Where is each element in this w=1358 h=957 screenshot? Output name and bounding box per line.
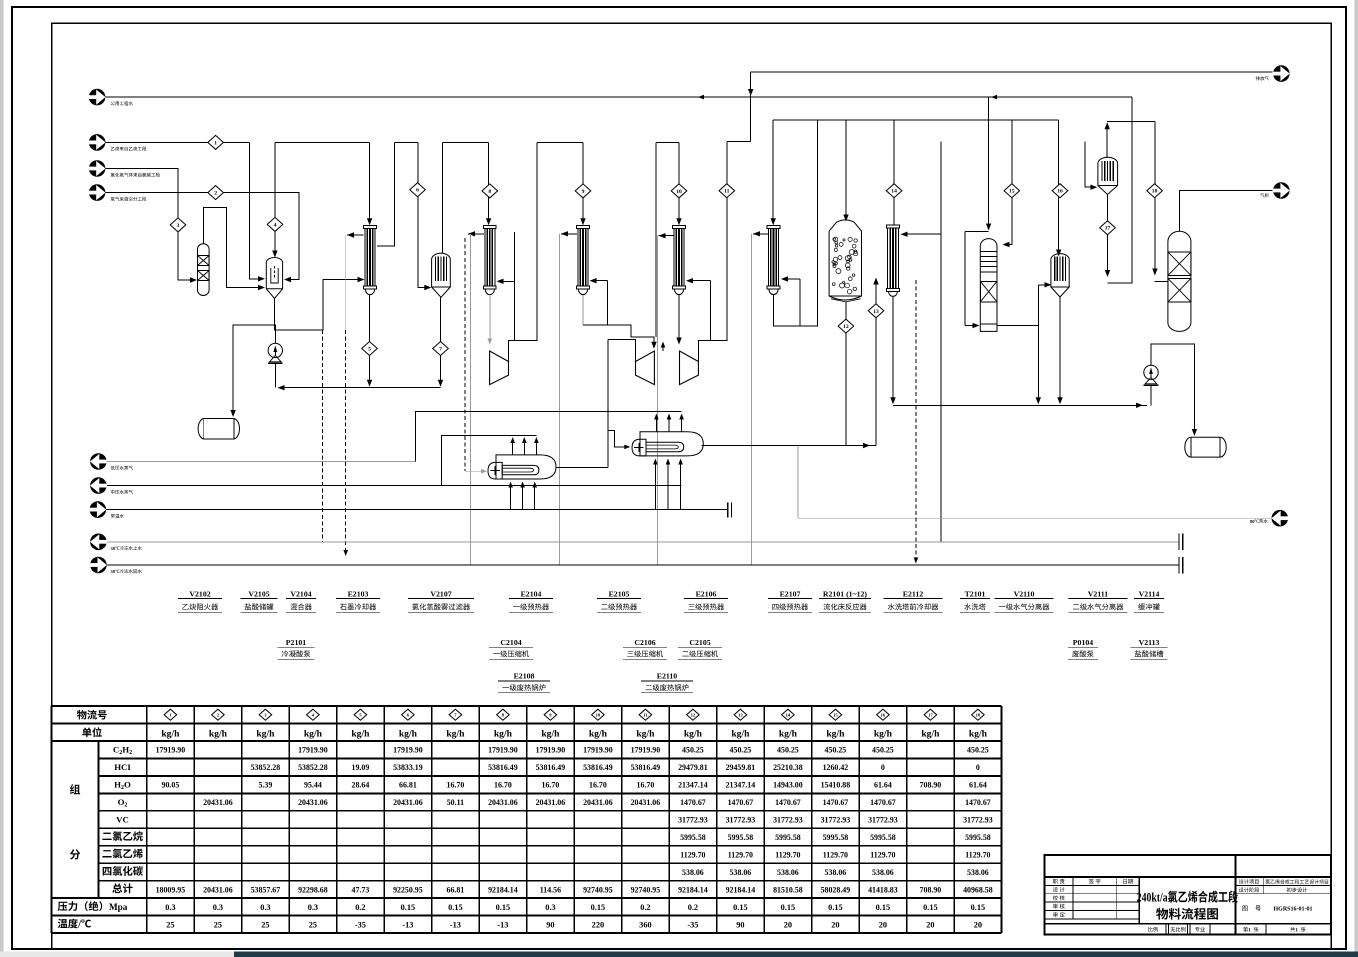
battery-limit flag 公用工程水 [89,89,133,106]
svg-text:90.05: 90.05 [162,781,180,790]
stream node 18 [1147,184,1163,198]
pipe: chilled water supply header [106,541,1179,543]
svg-text:114.56: 114.56 [540,885,561,894]
svg-text:92740.95: 92740.95 [631,885,661,894]
svg-text:V2104: V2104 [290,590,311,599]
svg-text:29459.81: 29459.81 [726,763,756,772]
first water separator V2110 [1051,254,1069,297]
svg-text:17: 17 [1105,226,1111,232]
stream node 1 [208,135,224,149]
svg-text:V2114: V2114 [1139,590,1160,599]
table component group labels [70,784,80,794]
svg-text:P2101: P2101 [286,638,306,647]
stream node 3 [170,218,186,232]
pipe: E2105 side inlet [593,280,607,282]
svg-text:0.2: 0.2 [688,903,698,912]
svg-text:450.25: 450.25 [682,746,704,755]
svg-text:H2O: H2O [114,780,131,792]
svg-text:/: / [77,919,81,930]
svg-text:kg/h: kg/h [209,729,228,740]
svg-text:VC: VC [116,815,129,825]
svg-text:53852.28: 53852.28 [298,763,328,772]
stream node 11 [719,184,735,198]
pipe: E2103 top riser [369,142,371,222]
svg-text:20: 20 [784,920,792,929]
svg-text:kg/h: kg/h [969,729,988,740]
svg-text:5.39: 5.39 [258,781,272,790]
svg-text:92740.95: 92740.95 [583,885,613,894]
svg-text:20431.06: 20431.06 [203,885,233,894]
HCl storage drum V2105 [198,419,239,440]
pipe: E2106 side inlet [690,280,711,282]
svg-text:15: 15 [833,712,838,717]
title block drawing title [1137,891,1238,920]
svg-text:16: 16 [1057,189,1063,195]
svg-text:20431.06: 20431.06 [536,798,566,807]
pipe: cooling return E2105 [561,233,577,235]
svg-text:538.06: 538.06 [872,868,894,877]
svg-text:5995.58: 5995.58 [823,833,849,842]
svg-text:538.06: 538.06 [730,868,752,877]
svg-text:18: 18 [1152,189,1158,195]
svg-text:kg/h: kg/h [731,729,750,740]
svg-text:41418.83: 41418.83 [868,885,898,894]
svg-text:0.2: 0.2 [640,903,650,912]
svg-text:5: 5 [368,347,371,353]
pipe: E2108 outlet to E2110 [556,467,608,469]
svg-text:V2102: V2102 [189,590,210,599]
svg-text:31772.93: 31772.93 [868,816,898,825]
pipe: cooling water header [106,509,728,511]
svg-text:61.64: 61.64 [874,781,892,790]
svg-text:7: 7 [439,347,442,353]
svg-text:450.25: 450.25 [777,746,799,755]
pipe: stream16 drop to V2110 [1058,120,1060,253]
svg-text:20431.06: 20431.06 [203,798,233,807]
svg-text:12: 12 [691,712,696,717]
stream node 4 [267,217,283,231]
svg-text:-35: -35 [687,920,698,929]
preheater No.4 E2107 [767,226,780,295]
svg-text:450.25: 450.25 [872,746,894,755]
waste heat boiler E2108 [488,455,556,479]
svg-text:20: 20 [831,920,839,929]
pipe: E2103 cooling outlet [347,234,364,236]
pipe: cooling return E2104 [468,233,484,235]
svg-text:30: 30 [111,569,116,574]
svg-text:0: 0 [881,763,885,772]
svg-text:E2112: E2112 [903,590,923,599]
preheater No.2 E2105 [577,226,590,295]
compressor stage2 C2105 [680,351,699,385]
svg-text:17919.90: 17919.90 [536,746,566,755]
svg-text:C2H2: C2H2 [113,745,132,757]
svg-text:708.90: 708.90 [920,781,942,790]
svg-text:31772.93: 31772.93 [821,816,851,825]
pipe: top header y119.8 [773,119,1058,121]
svg-text:360: 360 [639,920,651,929]
svg-text:17919.90: 17919.90 [488,746,518,755]
pipe: MP steam header [107,485,682,487]
svg-text:kg/h: kg/h [921,729,940,740]
table row O2 [118,797,991,809]
pipe: utility water header [105,96,1132,98]
svg-text:T2101: T2101 [965,590,986,599]
pipe: header to stream9 [537,141,583,143]
pipe: vent line to flare [751,71,1273,73]
svg-text:1: 1 [1295,927,1298,933]
pipe: corner to V2111 top [1107,120,1132,122]
svg-text:0.15: 0.15 [828,903,843,912]
svg-text:6: 6 [416,188,419,194]
svg-text:92184.14: 92184.14 [488,885,518,894]
svg-text:Mpa: Mpa [109,902,128,912]
pipe: reactor bottoms quench stream12 [845,302,847,446]
svg-text:kg/h: kg/h [446,729,465,740]
svg-text:90: 90 [546,920,554,929]
pipe: E2107 bottoms riser [774,120,818,326]
svg-text:1470.67: 1470.67 [823,798,849,807]
svg-text:0.15: 0.15 [733,903,748,912]
pipe: return riser right [1108,97,1133,283]
svg-text:25: 25 [166,920,174,929]
pipe: HCl gas feed line [105,169,193,281]
pipe: stream14 drop to E2112 [893,120,895,225]
pipe: T2101 bottoms [997,325,1038,327]
pipe: bridge to stream10 [656,141,679,143]
svg-text:C2105: C2105 [689,638,710,647]
svg-text:16.70: 16.70 [542,781,560,790]
svg-text:31772.93: 31772.93 [726,816,756,825]
compressor stage1 C2104 [490,351,509,385]
pipe: mixer outlet to E2103 [275,280,362,331]
pipe: quench loop with stream13 [702,445,876,447]
table row HCI [114,762,980,772]
battery-limit flag 气柜 [1260,182,1290,199]
svg-text:538.06: 538.06 [682,868,704,877]
battery-limit flag 中压水蒸气 [90,477,133,494]
svg-text:0.3: 0.3 [260,903,270,912]
svg-text:538.06: 538.06 [825,868,847,877]
svg-text:21347.14: 21347.14 [678,781,708,790]
svg-text:66.81: 66.81 [399,781,417,790]
pipe: oxygen feed line [105,193,299,280]
svg-text:kg/h: kg/h [589,729,608,740]
table header row stream numbers [77,709,984,720]
equipment label C2104 一级压缩机 [489,638,533,659]
table row 二氯乙烷 [102,831,990,842]
svg-text:V2107: V2107 [430,590,451,599]
svg-text:5995.58: 5995.58 [728,833,754,842]
svg-text:92184.14: 92184.14 [678,885,708,894]
svg-text:10: 10 [676,189,682,195]
svg-text:0.15: 0.15 [876,903,891,912]
pipe: bridge V2107 to E2104 [443,141,489,143]
svg-text:1470.67: 1470.67 [680,798,706,807]
svg-text:kg/h: kg/h [874,729,893,740]
svg-text:E2108: E2108 [514,671,535,680]
svg-text:18: 18 [976,712,981,717]
table unit row [82,727,987,739]
equipment label V2107 氯化氢酸雾过滤器 [408,590,474,613]
pipe: V2107 top riser [442,142,444,253]
svg-text:240kt/a: 240kt/a [1137,892,1168,905]
mixer V2104 [266,258,282,299]
equipment label E2108 一级废热锅炉 [498,671,550,693]
pipe: reactor effluent to E2112 [940,142,942,542]
svg-text:-13: -13 [497,920,508,929]
cooler before wash tower E2112 [887,225,900,297]
svg-text:1129.70: 1129.70 [870,850,895,859]
svg-text:5995.58: 5995.58 [680,833,706,842]
svg-text:0.3: 0.3 [165,903,175,912]
pipe: V2114 overhead to gas holder [1180,191,1273,232]
svg-text:kg/h: kg/h [779,729,798,740]
svg-text:E2104: E2104 [521,590,542,599]
svg-text:40968.58: 40968.58 [963,885,993,894]
svg-text:17: 17 [928,712,933,717]
pipe: LP steam header [107,461,416,463]
svg-text:0.15: 0.15 [448,903,463,912]
svg-text:29479.81: 29479.81 [678,763,708,772]
svg-text:17919.90: 17919.90 [298,746,328,755]
svg-text:31772.93: 31772.93 [773,816,803,825]
stream node 9 [575,184,591,198]
equipment label P2101 冷凝酸泵 [277,638,314,659]
svg-text:20: 20 [926,920,934,929]
pipe: C2105 discharge riser stream11 [698,142,726,362]
stream node 17 [1100,221,1116,235]
pipe: cooling return E2106 [659,235,674,237]
svg-text:14: 14 [786,712,791,717]
equipment label V2113 盐酸储槽 [1130,638,1167,659]
svg-text:E2105: E2105 [609,590,630,599]
svg-text:19.09: 19.09 [352,763,370,772]
equipment label V2104 混合器 [286,590,316,613]
svg-text:16.70: 16.70 [494,781,512,790]
battery-limit flag 低压水蒸气 [90,453,133,470]
svg-text:0.2: 0.2 [355,903,365,912]
pipe: E2108 feed water [510,484,512,510]
svg-text:kg/h: kg/h [304,729,323,740]
svg-text:O2: O2 [118,797,128,809]
svg-text:20431.06: 20431.06 [298,798,328,807]
svg-text:9: 9 [582,189,585,195]
svg-text:14943.00: 14943.00 [773,781,803,790]
pipe: stream10 drop to E2106 [678,142,680,222]
pipe: acetylene drop into mixer left [249,142,261,278]
stream node 12 [838,319,854,333]
pipe: bridge E2103 to V2107 [394,141,418,143]
svg-text:C2106: C2106 [634,638,655,647]
svg-text:53816.49: 53816.49 [583,763,613,772]
table row 二氯乙烯 [102,849,990,860]
svg-text:0.15: 0.15 [923,903,938,912]
svg-text:kg/h: kg/h [826,729,845,740]
svg-text:HCI: HCI [114,762,131,772]
svg-text:92298.68: 92298.68 [298,885,328,894]
svg-text:1129.70: 1129.70 [823,850,848,859]
svg-text:3: 3 [177,223,180,229]
pipe: E2107 side inlet [785,278,801,280]
svg-text:1129.70: 1129.70 [965,850,990,859]
svg-text:V2110: V2110 [1014,590,1035,599]
svg-text:8: 8 [488,189,491,195]
table row temperature [58,919,982,931]
svg-text:450.25: 450.25 [967,746,989,755]
equipment label V2105 盐酸储罐 [240,590,277,613]
svg-text:1129.70: 1129.70 [680,850,705,859]
equipment label E2104 一级预热器 [509,590,553,613]
battery-limit flag 氯化氢气体来自氯碱工段 [89,160,160,177]
svg-text:0.15: 0.15 [781,903,796,912]
svg-text:0.3: 0.3 [213,903,223,912]
svg-text:450.25: 450.25 [825,746,847,755]
equipment label P0104 废酸泵 [1068,638,1098,659]
svg-text:5995.58: 5995.58 [870,833,896,842]
svg-text:13: 13 [738,712,743,717]
flame arrester V2102 [198,244,210,296]
pipe: E2110 steam risers [655,416,657,432]
pipe: V2107 bottoms stream7 [440,297,442,383]
stream node 14 [886,184,902,198]
battery-limit flag 30℃冷冻水回水 [90,557,142,574]
svg-text:30: 30 [111,546,116,551]
svg-text:5995.58: 5995.58 [775,833,801,842]
pipe: cooling return E2107 [753,233,768,235]
condensed acid pump P2101 [268,343,283,363]
svg-text:16: 16 [881,712,886,717]
svg-text:31772.93: 31772.93 [678,816,708,825]
svg-text:1470.67: 1470.67 [775,798,801,807]
svg-text:92250.95: 92250.95 [393,885,423,894]
battery-limit flag 乙炔来自乙炔工段 [89,134,147,151]
svg-text:92184.14: 92184.14 [726,885,756,894]
pipe: stream15 drop to T2101 [1006,120,1012,245]
svg-text:25: 25 [261,920,269,929]
stream node 6 [410,183,426,197]
svg-text:90: 90 [736,920,744,929]
stream node 8 [482,184,498,198]
svg-text:0.3: 0.3 [308,903,318,912]
svg-text:0.15: 0.15 [971,903,986,912]
svg-text:E2110: E2110 [657,671,677,680]
pipe: E2112 drain dashed [915,280,917,560]
svg-text:11: 11 [724,189,729,195]
title block frame [1045,855,1332,935]
svg-text:1: 1 [214,140,217,146]
svg-text:P0104: P0104 [1073,638,1093,647]
battery-limit flag 排放气 [1256,65,1290,82]
waste acid pump P0104 [1144,365,1159,385]
svg-text:0.15: 0.15 [401,903,416,912]
table row pressure [58,901,985,912]
pipe: V2102 top to mixer [203,208,261,288]
pipe: acetylene feed line [105,141,249,143]
stream node 10 [671,184,687,198]
svg-text:kg/h: kg/h [399,729,418,740]
pipe: condensed acid header to pump [280,387,441,389]
svg-text:47.73: 47.73 [352,885,370,894]
pipe: E2108 steam risers [512,439,514,455]
equipment label V2111 二级水气分离器 [1069,590,1128,613]
svg-text:15410.88: 15410.88 [821,781,851,790]
equipment label C2105 二级压缩机 [678,638,722,659]
pipe: P0104 suction and discharge to V2113 [1150,386,1152,405]
compressor stage3 C2106 [636,351,655,385]
equipment label C2106 三级压缩机 [623,638,667,659]
svg-text:53833.19: 53833.19 [393,763,423,772]
stream node 5 [362,342,378,356]
svg-text:HGRS16-01-01: HGRS16-01-01 [1274,907,1313,913]
pipe: E2112 bottoms [892,296,894,401]
svg-text:95.44: 95.44 [304,781,322,790]
pipe: E2110 feed water [654,461,656,510]
svg-text:25210.38: 25210.38 [773,763,803,772]
svg-text:V2105: V2105 [248,590,269,599]
svg-text:kg/h: kg/h [494,729,513,740]
acid storage drum V2113 [1185,437,1226,457]
pipe: stream6 drop to V2107 [418,142,428,287]
svg-text:450.25: 450.25 [730,746,752,755]
equipment label V2114 缓冲罐 [1134,590,1164,613]
table row C2H2 [113,745,989,757]
pipe: T2101 bottom inlet [964,232,966,326]
svg-text:1: 1 [1248,927,1251,933]
svg-text:16.70: 16.70 [447,781,465,790]
svg-text:53816.49: 53816.49 [536,763,566,772]
svg-text:-35: -35 [355,920,366,929]
title block bottom row [1148,927,1305,933]
svg-text:20: 20 [879,920,887,929]
pipe: utility water branch to T2101 [988,97,990,226]
svg-text:17919.90: 17919.90 [583,746,613,755]
pipe: V2111 bottoms with stream 17 [1107,195,1109,273]
fluidized bed reactor R2101 [829,220,861,302]
battery-limit flag 80℃热水 [1250,510,1288,527]
buffer tank V2114 [1168,231,1191,331]
pipe: P2101 discharge to drum [233,325,275,413]
svg-text:53816.49: 53816.49 [631,763,661,772]
svg-text:17919.90: 17919.90 [156,746,186,755]
equipment label E2110 二级废热锅炉 [641,671,693,693]
svg-text:14: 14 [891,189,897,195]
pipe: burner feed dashed [464,238,466,471]
stream node 13 [868,304,884,318]
svg-text:220: 220 [592,920,604,929]
svg-text:R2101 (1~12): R2101 (1~12) [823,590,868,599]
waste heat boiler E2110 [632,432,703,456]
svg-text:20431.06: 20431.06 [393,798,423,807]
equipment label E2107 四级预热器 [768,590,812,613]
svg-text:13: 13 [873,309,879,315]
svg-text:25: 25 [214,920,222,929]
svg-text:538.06: 538.06 [967,868,989,877]
svg-text:31772.93: 31772.93 [963,816,993,825]
title block project info [1239,879,1328,912]
stream node 2 [208,186,224,200]
svg-text:kg/h: kg/h [636,729,655,740]
stream node 7 [433,342,449,356]
svg-text:17919.90: 17919.90 [631,746,661,755]
preheater No.1 E2104 [484,226,497,295]
equipment label E2105 二级预热器 [597,590,641,613]
svg-text:kg/h: kg/h [161,729,180,740]
equipment label R2101 (1~12) 流化床反应器 [819,590,871,613]
pipe: V2111 top riser [1106,125,1108,158]
svg-text:20431.06: 20431.06 [488,798,518,807]
pipe: interstage arrow [662,345,664,352]
